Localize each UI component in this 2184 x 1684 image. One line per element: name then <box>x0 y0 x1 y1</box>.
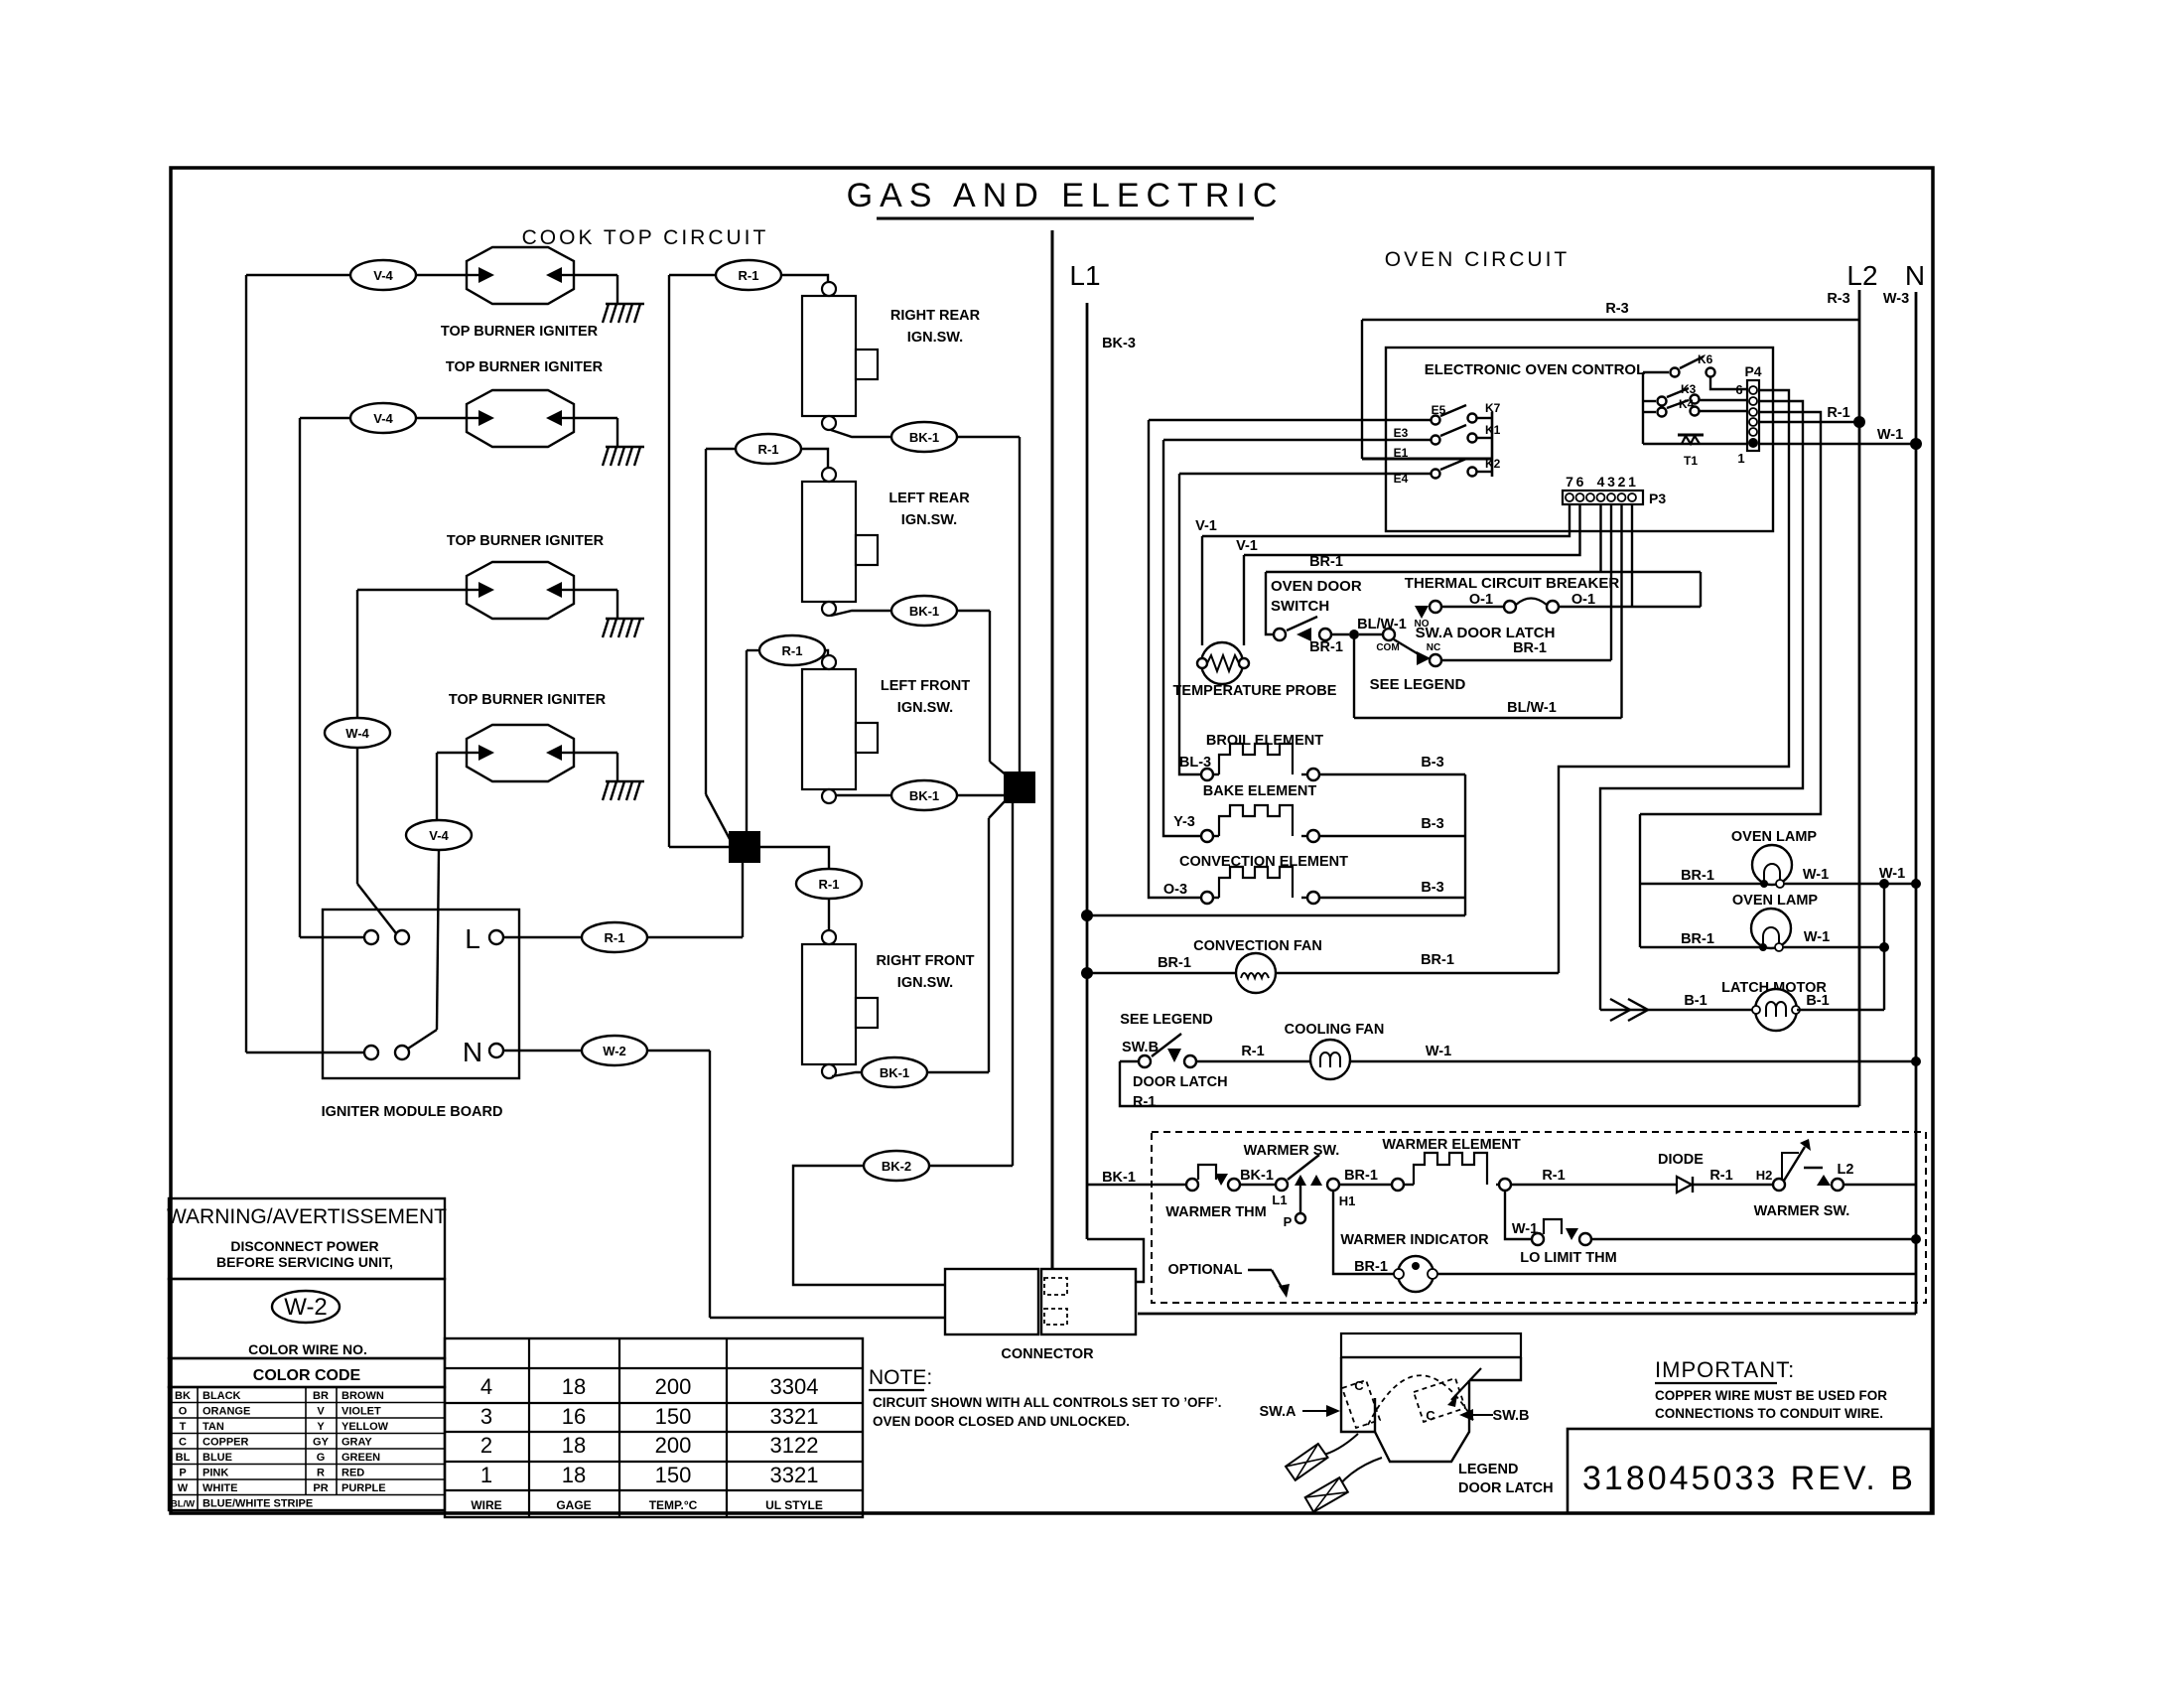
svg-text:CONNECTOR: CONNECTOR <box>1001 1346 1094 1362</box>
svg-text:4: 4 <box>480 1374 492 1399</box>
door latch switch SW.B <box>1139 1055 1151 1067</box>
svg-text:WARMER ELEMENT: WARMER ELEMENT <box>1382 1137 1521 1153</box>
svg-text:R-1: R-1 <box>1709 1168 1732 1184</box>
svg-text:GAGE: GAGE <box>556 1498 591 1512</box>
svg-text:R-1: R-1 <box>758 442 779 457</box>
left front ign switch <box>802 655 878 803</box>
svg-text:R-3: R-3 <box>1605 301 1628 317</box>
svg-text:W-1: W-1 <box>1426 1044 1451 1059</box>
wire convection feed <box>1149 420 1200 898</box>
svg-text:WARNING/AVERTISSEMENT: WARNING/AVERTISSEMENT <box>167 1205 447 1228</box>
svg-text:TAN: TAN <box>203 1421 224 1433</box>
svg-text:150: 150 <box>655 1463 692 1487</box>
svg-text:YELLOW: YELLOW <box>341 1421 389 1433</box>
label W-2 <box>582 1036 647 1065</box>
svg-text:CONNECTIONS TO CONDUIT WIRE.: CONNECTIONS TO CONDUIT WIRE. <box>1655 1406 1883 1421</box>
wire W-4 drop igniter 3 upper <box>356 590 358 718</box>
svg-text:B-3: B-3 <box>1421 880 1443 896</box>
wire ign sw 1 to BK-1 <box>831 430 891 437</box>
svg-text:BK-3: BK-3 <box>1102 336 1136 351</box>
wire gauge table <box>445 1338 863 1517</box>
svg-text:BR-1: BR-1 <box>1421 952 1454 968</box>
svg-text:BROWN: BROWN <box>341 1390 384 1402</box>
wire W-4 drop igniter 3 lower <box>356 748 358 884</box>
wire BK-1#2 to riser <box>957 610 990 612</box>
svg-text:DIODE: DIODE <box>1658 1152 1704 1168</box>
top burner igniter 2 <box>467 390 574 447</box>
wire P3-4 drop <box>1599 504 1601 572</box>
module terminal bottom-left pair <box>364 1046 378 1059</box>
warmer switch 2 H2 <box>1773 1179 1785 1191</box>
wire breaker to riser <box>1559 606 1701 608</box>
svg-text:SEE LEGEND: SEE LEGEND <box>1370 676 1466 693</box>
svg-text:LEFT REAR: LEFT REAR <box>888 491 970 506</box>
wire ign sw 3 to BK-1 <box>836 794 891 796</box>
svg-text:R-1: R-1 <box>605 930 625 945</box>
wire BK-1#1 to riser <box>957 436 1020 438</box>
wire module feed x302 to top-left terminal <box>300 936 364 938</box>
label BK-1 ign sw 3 <box>891 780 957 810</box>
wire W-2 drop <box>709 1051 711 1318</box>
svg-text:O-3: O-3 <box>1163 882 1187 898</box>
wire BL/W-1 drop <box>1353 634 1355 718</box>
chevrons latch motor feed <box>1610 999 1648 1021</box>
warmer switch P pole <box>1295 1175 1306 1186</box>
wire element W-1 drop <box>1505 1191 1532 1239</box>
svg-text:V-4: V-4 <box>429 828 449 843</box>
wire R-1 to junction riser <box>647 936 743 938</box>
svg-text:K3: K3 <box>1681 382 1697 396</box>
junction BK-3 elements return <box>1081 910 1093 921</box>
svg-text:GREEN: GREEN <box>341 1452 380 1464</box>
wire L2 bus <box>1858 290 1861 1106</box>
svg-text:R-3: R-3 <box>1827 291 1849 307</box>
wire ellipse V-4 row2 to igniter 2 <box>416 417 467 419</box>
svg-text:IGN.SW.: IGN.SW. <box>897 700 953 716</box>
legend funnel <box>1375 1380 1469 1462</box>
wire riser to junction SQ1 <box>742 862 744 937</box>
left rear ign switch <box>802 468 878 616</box>
wire bake to B-3 bus <box>1319 835 1465 837</box>
svg-text:PR: PR <box>313 1482 328 1494</box>
svg-text:N: N <box>1905 260 1925 291</box>
svg-text:R-1: R-1 <box>819 877 840 892</box>
svg-text:BAKE ELEMENT: BAKE ELEMENT <box>1203 783 1317 799</box>
svg-text:C: C <box>1426 1408 1435 1423</box>
oven door switch <box>1274 629 1286 640</box>
svg-text:TEMP.°C: TEMP.°C <box>649 1498 698 1512</box>
svg-text:V-1: V-1 <box>1236 538 1258 554</box>
label BK-1 ign sw 1 <box>891 422 957 452</box>
svg-text:L1: L1 <box>1069 260 1100 291</box>
wire K contact bar <box>1491 412 1494 477</box>
svg-text:RIGHT REAR: RIGHT REAR <box>890 308 981 324</box>
svg-text:E4: E4 <box>1394 472 1409 486</box>
broil element <box>1201 769 1213 780</box>
svg-text:16: 16 <box>562 1404 586 1429</box>
svg-text:TOP BURNER IGNITER: TOP BURNER IGNITER <box>441 324 599 340</box>
svg-text:W-3: W-3 <box>1883 291 1909 307</box>
wire lamp1 <box>1640 883 1916 885</box>
wire R-1#3 to ign sw 3 <box>825 650 828 655</box>
wire THM to warmer switch <box>1240 1184 1276 1186</box>
wire riser breaker to BR-1 feed <box>1700 572 1702 607</box>
svg-text:BROIL ELEMENT: BROIL ELEMENT <box>1206 733 1323 749</box>
svg-text:W-1: W-1 <box>1804 929 1830 945</box>
svg-text:OVEN DOOR CLOSED AND UNLOCKED.: OVEN DOOR CLOSED AND UNLOCKED. <box>873 1414 1130 1429</box>
svg-text:CIRCUIT SHOWN WITH ALL CONTROL: CIRCUIT SHOWN WITH ALL CONTROLS SET TO ’… <box>873 1395 1221 1410</box>
svg-text:L: L <box>465 923 480 954</box>
wire BK-2 drop <box>793 1166 945 1285</box>
svg-text:T: T <box>180 1421 187 1433</box>
legend SW.B plunger <box>1451 1368 1481 1400</box>
wire P3-3 drop <box>1610 504 1612 660</box>
svg-text:G: G <box>317 1452 326 1464</box>
terminal L <box>489 930 503 944</box>
label R-1 ign sw 3 <box>759 635 825 665</box>
wire door switch to junction <box>1331 633 1349 635</box>
svg-text:4: 4 <box>1597 474 1605 490</box>
svg-text:B-1: B-1 <box>1806 993 1829 1009</box>
wire BK-1#4 to riser <box>927 1071 989 1073</box>
cooling fan <box>1310 1040 1350 1079</box>
label BK-1 ign sw 4 <box>862 1057 927 1087</box>
junction SQ2 <box>1005 772 1034 802</box>
label V-4 row2 <box>350 403 416 433</box>
svg-text:K4: K4 <box>1679 397 1695 411</box>
wire warmer to N <box>1843 1184 1916 1186</box>
svg-text:TOP BURNER IGNITER: TOP BURNER IGNITER <box>446 359 604 375</box>
junction lamp1 at N <box>1911 879 1921 889</box>
wire element to diode <box>1511 1184 1676 1186</box>
wire P4-5 to latch motor <box>1600 401 1803 1010</box>
svg-text:R-1: R-1 <box>1542 1168 1565 1184</box>
svg-text:TOP BURNER IGNITER: TOP BURNER IGNITER <box>449 692 607 708</box>
svg-text:200: 200 <box>655 1433 692 1458</box>
junction BK-3 convection fan <box>1081 967 1093 979</box>
junction BL/W-1 <box>1349 630 1359 639</box>
SW.A NC contact <box>1430 654 1441 666</box>
svg-text:B-1: B-1 <box>1684 993 1706 1009</box>
label R-1 ign sw 2 <box>736 434 801 464</box>
wire V-4 drop igniter 4 lower <box>437 850 439 1030</box>
junction lamp2 W-1 riser <box>1879 942 1889 952</box>
svg-text:UL STYLE: UL STYLE <box>765 1498 823 1512</box>
wire P3-6 V-1 to probe right <box>1244 504 1580 555</box>
wire L1 bus <box>1051 230 1054 1269</box>
temperature probe <box>1201 642 1243 684</box>
svg-text:BK-1: BK-1 <box>1240 1168 1274 1184</box>
svg-text:V-4: V-4 <box>373 411 393 426</box>
svg-text:ELECTRONIC OVEN CONTROL: ELECTRONIC OVEN CONTROL <box>1425 361 1646 378</box>
wire x674 into SQ1 <box>669 846 730 848</box>
wire W-1 riser <box>1883 884 1885 1010</box>
svg-text:DOOR LATCH: DOOR LATCH <box>1458 1480 1554 1496</box>
wire P3-1 drop <box>1631 504 1633 607</box>
oven lamp 2 <box>1751 909 1791 948</box>
svg-text:3: 3 <box>1607 474 1615 490</box>
svg-text:18: 18 <box>562 1374 586 1399</box>
svg-text:W-1: W-1 <box>1803 867 1829 883</box>
switch E4/K2 <box>1432 470 1440 479</box>
svg-text:6: 6 <box>1576 474 1584 490</box>
wire E4 feed <box>1179 473 1431 475</box>
svg-text:SW.A: SW.A <box>1259 1404 1297 1420</box>
svg-text:BR-1: BR-1 <box>1354 1259 1388 1275</box>
bake element <box>1201 830 1213 842</box>
wire R-1#4 to ign sw 4 <box>828 899 830 930</box>
svg-text:NC: NC <box>1427 642 1440 653</box>
wire SQ1 to R-1#4 <box>759 847 829 869</box>
warmer element <box>1392 1179 1404 1191</box>
wire igniter 3 left <box>357 589 467 591</box>
wire NO to breaker <box>1441 606 1510 608</box>
electronic oven control box <box>1386 348 1773 531</box>
warning box <box>169 1198 445 1279</box>
svg-text:318045033 REV. B: 318045033 REV. B <box>1582 1460 1916 1497</box>
svg-text:BK: BK <box>175 1390 191 1402</box>
optional warmer dashed box <box>1152 1132 1926 1303</box>
wire BK-2 riser to SQ2 <box>1012 802 1014 1166</box>
svg-text:L1: L1 <box>1272 1193 1287 1207</box>
warmer switch 2 L2 contact <box>1817 1175 1831 1186</box>
igniter module board <box>323 910 519 1078</box>
junction R-1 on L2 <box>1853 416 1865 428</box>
label W-2 sample <box>272 1291 340 1323</box>
svg-text:SEE LEGEND: SEE LEGEND <box>1120 1012 1212 1028</box>
svg-text:THERMAL CIRCUIT BREAKER: THERMAL CIRCUIT BREAKER <box>1405 575 1620 592</box>
svg-text:BR-1: BR-1 <box>1681 868 1714 884</box>
wire relay rail <box>1642 372 1644 444</box>
junction lo limit at N <box>1911 1234 1921 1244</box>
wire R-1#3 drop x752 to SQ1 <box>746 650 748 832</box>
svg-text:OVEN DOOR: OVEN DOOR <box>1271 578 1362 595</box>
wire lo limit W-1 to N <box>1591 1238 1916 1240</box>
diode <box>1677 1177 1692 1193</box>
svg-text:WARMER THM: WARMER THM <box>1165 1204 1267 1220</box>
label V-4 row4 <box>406 820 472 850</box>
svg-text:BK-1: BK-1 <box>909 604 939 619</box>
svg-text:O-1: O-1 <box>1571 592 1595 608</box>
svg-text:W-4: W-4 <box>345 726 369 741</box>
svg-text:H2: H2 <box>1756 1168 1773 1183</box>
wire L output <box>503 936 582 938</box>
wire W-2 to connector <box>710 1317 945 1319</box>
wire x711 diagonal into SQ1 <box>706 794 730 839</box>
switch E3/K1 <box>1432 436 1440 445</box>
wire N bus <box>1915 292 1918 1314</box>
wire convection to B-3 bus <box>1319 897 1465 899</box>
wire lamp2 <box>1640 946 1884 948</box>
svg-text:P: P <box>179 1468 186 1479</box>
svg-text:W-1: W-1 <box>1877 427 1903 443</box>
svg-text:P4: P4 <box>1744 363 1761 379</box>
svg-text:COLOR CODE: COLOR CODE <box>253 1367 361 1384</box>
wire convection fan left <box>1087 972 1237 974</box>
svg-text:COOK TOP CIRCUIT: COOK TOP CIRCUIT <box>522 226 769 249</box>
svg-text:COLOR WIRE NO.: COLOR WIRE NO. <box>248 1341 367 1357</box>
svg-text:COPPER: COPPER <box>203 1437 249 1449</box>
svg-text:IGNITER MODULE BOARD: IGNITER MODULE BOARD <box>322 1104 503 1120</box>
wire cooling fan W-1 to N <box>1350 1060 1916 1062</box>
svg-text:V-4: V-4 <box>373 268 393 283</box>
svg-text:OVEN LAMP: OVEN LAMP <box>1731 829 1818 845</box>
svg-text:GRAY: GRAY <box>341 1437 372 1449</box>
svg-text:BR-1: BR-1 <box>1158 955 1191 971</box>
wire R-1#1 drop x674 <box>668 275 670 847</box>
svg-text:WIRE: WIRE <box>471 1498 501 1512</box>
svg-text:3321: 3321 <box>770 1404 819 1429</box>
wire BK-2 left of ellipse <box>864 1165 1013 1167</box>
svg-text:O: O <box>179 1406 188 1418</box>
svg-text:N: N <box>463 1037 482 1067</box>
wire R-1#2 to ign sw 2 <box>801 449 828 468</box>
svg-text:H1: H1 <box>1339 1193 1356 1208</box>
svg-text:IGN.SW.: IGN.SW. <box>897 975 953 991</box>
wire P4-4 to oven lamps <box>1640 412 1821 814</box>
wire N output <box>503 1050 582 1052</box>
pin P4-1 junction <box>1748 438 1758 448</box>
wire E3 feed <box>1163 439 1431 441</box>
wire E5 feed <box>1149 419 1431 421</box>
connector P3 <box>1563 491 1643 504</box>
wire latch motor right <box>1797 1009 1884 1011</box>
border frame <box>171 168 1933 1513</box>
junction cooling W-1 at N <box>1911 1056 1921 1066</box>
top burner igniter 1 <box>467 247 574 304</box>
svg-text:COOLING FAN: COOLING FAN <box>1285 1022 1385 1038</box>
svg-text:2: 2 <box>1618 474 1626 490</box>
svg-text:P3: P3 <box>1649 491 1666 506</box>
wire diagonal to module top-right terminal <box>357 884 396 933</box>
svg-text:LEFT FRONT: LEFT FRONT <box>881 678 970 694</box>
color code header box <box>169 1358 445 1387</box>
switch E5/K7 <box>1432 416 1440 425</box>
wire R-1#3 left <box>747 649 759 651</box>
svg-text:DISCONNECT POWER: DISCONNECT POWER <box>230 1238 378 1254</box>
label W-4 <box>325 718 390 748</box>
svg-text:BLUE: BLUE <box>203 1452 232 1464</box>
junction lamp1 W-1 riser <box>1879 879 1889 889</box>
svg-text:BK-2: BK-2 <box>882 1159 911 1174</box>
warmer switch L1 contact <box>1276 1179 1288 1191</box>
svg-text:CONVECTION FAN: CONVECTION FAN <box>1193 938 1322 954</box>
svg-text:T1: T1 <box>1684 454 1698 468</box>
svg-text:BK-1: BK-1 <box>880 1065 909 1080</box>
svg-text:V: V <box>317 1406 325 1418</box>
svg-text:IGN.SW.: IGN.SW. <box>907 330 963 346</box>
wire cooling loop bottom R-1 <box>1120 1061 1859 1106</box>
relay K3 <box>1643 400 1656 402</box>
svg-text:BLACK: BLACK <box>203 1390 241 1402</box>
wire left bus x248 <box>245 275 247 1052</box>
relay K4 <box>1643 411 1656 413</box>
svg-text:Y: Y <box>317 1421 325 1433</box>
wire lamp box left <box>1639 814 1641 947</box>
wire B-3 return to BK-3 <box>1087 914 1465 916</box>
svg-text:BL: BL <box>176 1452 191 1464</box>
svg-text:SW.B: SW.B <box>1122 1040 1159 1055</box>
ground igniter 2 <box>574 418 644 466</box>
svg-text:PURPLE: PURPLE <box>341 1482 386 1494</box>
svg-text:WARMER SW.: WARMER SW. <box>1244 1143 1340 1159</box>
wire igniter 4 left <box>437 752 467 754</box>
wire BK-1#4 riser <box>988 818 990 1072</box>
junction SQ1 <box>730 832 759 862</box>
connector P4 <box>1747 380 1759 451</box>
svg-text:OVEN CIRCUIT: OVEN CIRCUIT <box>1385 248 1570 271</box>
wire E1 <box>1362 458 1492 461</box>
wire R-1#2 drop x711 <box>705 449 707 794</box>
svg-text:TOP BURNER IGNITER: TOP BURNER IGNITER <box>447 533 605 549</box>
svg-text:R-1: R-1 <box>782 643 803 658</box>
svg-text:R-1: R-1 <box>1827 405 1849 421</box>
top burner igniter 4 <box>467 725 574 781</box>
svg-text:BK-1: BK-1 <box>1102 1170 1136 1186</box>
warmer indicator lamp <box>1398 1256 1433 1292</box>
svg-text:BEFORE SERVICING UNIT,: BEFORE SERVICING UNIT, <box>216 1254 393 1270</box>
wire convection fan right <box>1275 972 1559 974</box>
label BK-1 ign sw 2 <box>891 596 957 626</box>
wire R-1#1 to ign sw 1 <box>781 275 828 282</box>
svg-text:NOTE:: NOTE: <box>869 1366 932 1389</box>
label BK-2 <box>864 1151 929 1181</box>
svg-text:K6: K6 <box>1698 352 1713 366</box>
legend terminal 2 <box>1305 1477 1348 1512</box>
legend switch A dashed <box>1342 1380 1380 1428</box>
svg-text:GAS AND ELECTRIC: GAS AND ELECTRIC <box>847 177 1285 214</box>
svg-text:WHITE: WHITE <box>203 1482 237 1494</box>
wire P3-2 drop <box>1620 504 1622 718</box>
right rear ign switch <box>802 282 878 430</box>
svg-text:W: W <box>178 1482 189 1494</box>
svg-text:BR-1: BR-1 <box>1513 640 1547 656</box>
svg-text:E3: E3 <box>1394 426 1409 440</box>
label V-4 row1 <box>350 260 416 290</box>
wire P4-6 to convection fan <box>1559 390 1789 973</box>
svg-text:SWITCH: SWITCH <box>1271 598 1329 615</box>
color code table <box>169 1387 445 1510</box>
svg-text:B-3: B-3 <box>1421 816 1443 832</box>
svg-text:WARMER INDICATOR: WARMER INDICATOR <box>1340 1232 1489 1248</box>
svg-text:W-2: W-2 <box>603 1044 626 1058</box>
svg-text:3321: 3321 <box>770 1463 819 1487</box>
svg-text:RIGHT FRONT: RIGHT FRONT <box>876 953 974 969</box>
svg-text:BLUE/WHITE STRIPE: BLUE/WHITE STRIPE <box>203 1498 313 1510</box>
right front ign switch <box>802 930 878 1078</box>
wire BK-1#2 riser <box>989 611 991 762</box>
svg-text:ORANGE: ORANGE <box>203 1406 250 1418</box>
svg-text:200: 200 <box>655 1374 692 1399</box>
label R-1 ign sw 1 <box>716 260 781 290</box>
svg-text:1: 1 <box>1628 474 1636 490</box>
wire W-2 to drop <box>647 1050 710 1052</box>
wire indicator to N <box>1437 1273 1916 1275</box>
convection fan <box>1236 953 1276 993</box>
label R-1 ign sw 4 <box>796 869 862 899</box>
ground igniter 4 <box>574 753 644 800</box>
svg-text:BK-1: BK-1 <box>909 788 939 803</box>
junction W-1 on N <box>1910 438 1922 450</box>
module terminal top-left pair <box>364 930 378 944</box>
svg-text:BR-1: BR-1 <box>1344 1168 1378 1184</box>
svg-text:3122: 3122 <box>770 1433 819 1458</box>
wire R-3 <box>1362 319 1859 321</box>
svg-text:OPTIONAL: OPTIONAL <box>1168 1262 1243 1278</box>
lo limit thermostat <box>1532 1233 1544 1245</box>
wire H1 to element <box>1339 1184 1392 1186</box>
svg-text:V-1: V-1 <box>1195 518 1217 534</box>
